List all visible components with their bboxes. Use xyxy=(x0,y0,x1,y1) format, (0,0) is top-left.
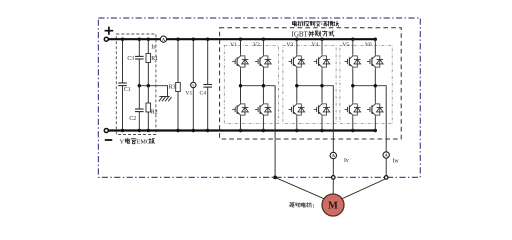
wire phase mid rail + elbow at x=386.2 xyxy=(353,86,386,139)
ammeter Iw xyxy=(383,152,389,158)
svg-text:R3: R3 xyxy=(169,85,176,91)
IGBT V2 upper (with antiparallel diode) xyxy=(262,39,264,53)
IGBT V3 upper (with antiparallel diode) xyxy=(296,39,298,53)
svg-text:Iv: Iv xyxy=(344,158,349,164)
IGBT group box 3 xyxy=(340,46,392,124)
svg-text:IGBT: IGBT xyxy=(292,30,309,38)
label 电机控制变流模块 xyxy=(292,21,296,26)
motor M1 xyxy=(322,194,344,216)
junction dots bottom bus xyxy=(121,129,124,132)
mid node rail to ground xyxy=(139,86,167,97)
IGBT V4 lower (with antiparallel diode) xyxy=(321,86,323,102)
chassis ground xyxy=(159,96,169,98)
IGBT V5 lower (with antiparallel diode) xyxy=(352,86,354,102)
wire phase mid rail + elbow at x=275.1 xyxy=(241,86,276,139)
node U junction xyxy=(273,176,277,180)
ammeter Iv xyxy=(330,152,336,158)
IGBT V3 lower (with antiparallel diode) xyxy=(296,86,298,102)
resistor R1 branch xyxy=(147,39,149,53)
svg-text:V5: V5 xyxy=(342,42,349,48)
resistor R2 branch xyxy=(147,86,149,103)
svg-text:C1: C1 xyxy=(124,87,131,93)
svg-text:V6: V6 xyxy=(365,42,372,48)
svg-text:R1: R1 xyxy=(151,56,158,62)
bottom DC- bus xyxy=(108,129,375,131)
svg-text:R2: R2 xyxy=(151,110,158,116)
capacitor C4 branch xyxy=(207,39,209,84)
resistor R3 branch xyxy=(177,39,179,82)
voltmeter V1 branch xyxy=(192,39,194,82)
node V xyxy=(332,176,336,180)
svg-text:C4: C4 xyxy=(200,90,207,96)
wire V to motor xyxy=(332,179,334,194)
svg-text:EMC: EMC xyxy=(137,138,150,145)
wire phase W xyxy=(385,139,387,152)
svg-text:V3: V3 xyxy=(286,42,293,48)
IGBT V4 upper (with antiparallel diode) xyxy=(321,39,323,53)
svg-text:V4: V4 xyxy=(312,42,319,48)
IGBT group box 2 xyxy=(283,46,336,124)
wire W to motor xyxy=(341,179,386,199)
top DC+ bus xyxy=(108,38,375,40)
svg-text:V1: V1 xyxy=(230,42,237,48)
wire phase V xyxy=(332,139,334,152)
svg-text:M: M xyxy=(328,201,338,212)
ammeter Is xyxy=(160,36,166,42)
IGBT V1 lower (with antiparallel diode) xyxy=(240,86,242,102)
minus terminal xyxy=(105,139,112,141)
IGBT V1 upper (with antiparallel diode) xyxy=(240,39,242,53)
IGBT V6 lower (with antiparallel diode) xyxy=(374,86,376,102)
node W xyxy=(384,176,388,180)
IGBT V6 upper (with antiparallel diode) xyxy=(374,39,376,53)
svg-text:Iw: Iw xyxy=(393,159,400,165)
junction dots top bus xyxy=(121,38,124,41)
label 驱动电机1 xyxy=(289,203,294,207)
svg-text:Is: Is xyxy=(151,44,156,50)
outer module border 电机控制变流模块 xyxy=(98,18,420,177)
wire phase U xyxy=(274,139,276,177)
svg-text:C2: C2 xyxy=(129,116,136,122)
capacitor C2 branch xyxy=(138,86,140,109)
svg-text:1: 1 xyxy=(312,203,315,209)
svg-text:v: v xyxy=(192,83,194,87)
svg-text:C3: C3 xyxy=(127,56,134,62)
plus terminal xyxy=(105,30,114,32)
IGBT V2 lower (with antiparallel diode) xyxy=(262,86,264,102)
capacitor C3 branch xyxy=(138,39,140,56)
capacitor C1 branch xyxy=(122,39,124,83)
svg-text:V2: V2 xyxy=(253,42,260,48)
IGBT parallel box xyxy=(220,28,402,139)
wire U to motor xyxy=(275,177,325,199)
svg-text:V1: V1 xyxy=(185,90,192,96)
svg-text:Y: Y xyxy=(120,139,125,146)
IGBT V5 upper (with antiparallel diode) xyxy=(352,39,354,53)
wire phase mid rail + elbow at x=333.3 xyxy=(297,86,334,139)
Y-cap EMC board box xyxy=(116,34,156,135)
IGBT group box 1 xyxy=(224,46,278,124)
